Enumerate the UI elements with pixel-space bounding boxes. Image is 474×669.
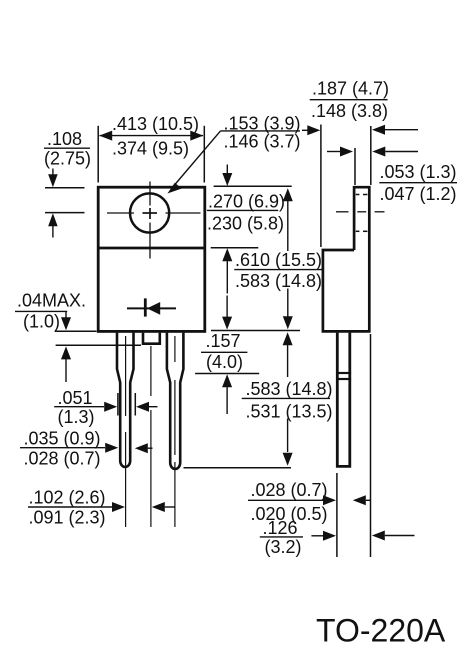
svg-text:(3.2): (3.2) [265,537,302,557]
dim .157 down arrow [222,296,232,330]
dim .108 tick lines [45,188,85,213]
dim .413/.374 extension lines [98,126,204,183]
dim .270 up arrow [222,248,232,293]
dim text .053 (1.3)/.047 (1.2) fraction [379,162,457,204]
svg-text:.583 (14.8): .583 (14.8) [235,271,322,291]
right lead [167,333,184,469]
dim .126 right-pointing arrow [311,531,336,541]
left lead center line [125,336,127,527]
stand-off reference line [56,344,141,346]
mounting hole [130,193,169,232]
dim text .051/(1.3) fraction with left arrow [54,388,117,427]
middle lead center line [150,346,152,527]
dim text .028 (0.7)/.020 (0.5) fraction with arrow [248,480,336,524]
dim .053 right arrow [372,147,418,157]
dim .187 left arrow (points right at side view left ext) [302,125,320,135]
svg-text:.028 (0.7): .028 (0.7) [24,449,101,469]
dim .102 left-pointing arrow [152,502,175,512]
svg-text:.148 (3.8): .148 (3.8) [311,101,388,121]
side view right edge extension line [370,334,372,557]
side view hole center line (dash-dot) [336,211,385,213]
dim .108 up arrow [48,213,58,237]
svg-text:(1.0): (1.0) [23,311,60,331]
body top extension line right [214,185,292,187]
side view lead [337,333,350,467]
dim .053 left arrow [327,147,353,157]
svg-text:(2.75): (2.75) [44,149,91,169]
dim text .157/(4.0) fraction [201,331,247,372]
body bottom extension line left [55,330,97,332]
dim .610 dimension line with arrows [283,188,293,329]
svg-text:.583 (14.8): .583 (14.8) [246,379,333,399]
svg-text:.047 (1.2): .047 (1.2) [380,184,457,204]
svg-text:.04MAX.: .04MAX. [17,291,86,311]
svg-text:.108: .108 [47,129,82,149]
svg-text:.091 (2.3): .091 (2.3) [29,508,106,528]
dim .108 down arrow [48,169,58,188]
dim .051 right arrow [136,402,158,412]
dim .035 right arrow [135,443,153,453]
dim .157 lower reference line [195,373,259,375]
svg-text:.053 (1.3): .053 (1.3) [380,162,457,182]
svg-text:TO-220A: TO-220A [316,613,446,649]
dim .028 right arrow [353,495,371,505]
side view lead taper tick lower [336,378,351,380]
svg-text:.051: .051 [58,388,93,408]
side view hidden hole bottom edge (dashed) [356,230,368,232]
lead tip extension line [184,467,292,469]
side lead left extension line [336,473,338,557]
dim .187 right arrow [372,125,418,135]
dim .583 lower dimension line with arrows [283,332,293,466]
svg-text:.230 (5.8): .230 (5.8) [207,213,284,233]
dim text .108 fraction [44,129,91,169]
dim text .187 (4.7)/.148 (3.8) fraction [310,79,389,121]
dim .187 extension line right [370,126,372,185]
leader line to mounting hole with arrowhead [167,131,220,194]
dim text .102 (2.6)/.091 (2.3) fraction with right arrow [28,487,125,527]
dim text .374 (9.5) [112,139,189,159]
svg-text:.531 (13.5): .531 (13.5) [246,401,333,421]
front view tab/body divider line [97,247,206,250]
svg-text:.413 (10.5): .413 (10.5) [112,114,199,134]
dim text .583 (14.8)/.531 (13.5) fraction [242,379,333,422]
dim text .126/(3.2) fraction [260,518,303,557]
svg-text:.126: .126 [263,518,298,538]
svg-text:(1.3): (1.3) [58,407,95,427]
dim .04 up arrow [61,346,71,382]
body bottom extension line right [211,330,300,332]
dim text .610 (15.5)/.583 (14.8) fraction [234,250,323,291]
svg-text:.374 (9.5): .374 (9.5) [112,139,189,159]
mounting hole vertical center line [149,182,151,259]
side view hidden hole top edge (dashed) [356,194,368,196]
dim text .04MAX./(1.0) fraction [15,291,86,332]
package name TO-220A [316,613,446,649]
svg-text:.102 (2.6): .102 (2.6) [29,487,106,507]
dim .157 up arrow [222,374,232,414]
dim .187 extension line left [320,125,322,248]
dim text .035 (0.9)/.028 (0.7) fraction with left arrow [20,428,118,468]
left lead [117,333,134,467]
dim .04 down arrow [61,311,71,330]
dim .270 down arrow [222,165,232,187]
dim .053 extension line [354,148,356,185]
diode symbol inside body [127,298,176,316]
dim .051 extension ticks [118,393,135,416]
middle lead stub [143,333,160,344]
divider extension line right [211,247,259,249]
dim text .270 (6.9)/.230 (5.8) fraction [207,191,285,233]
side view package profile [323,187,369,331]
svg-text:.028 (0.7): .028 (0.7) [251,480,328,500]
svg-text:.035 (0.9): .035 (0.9) [24,428,101,448]
dim .413/.374 dimension line with arrows [99,131,203,141]
dim text .413 (10.5) [112,114,199,134]
mounting hole horizontal center line [107,212,201,214]
svg-text:.157: .157 [206,331,241,351]
svg-text:(4.0): (4.0) [206,352,243,372]
svg-text:.270 (6.9): .270 (6.9) [208,191,285,211]
svg-text:.146 (3.7): .146 (3.7) [224,132,301,152]
right lead center line [174,336,176,527]
svg-text:.187 (4.7): .187 (4.7) [312,79,389,99]
svg-text:.610 (15.5): .610 (15.5) [235,250,322,270]
side view lead taper tick upper [336,372,351,374]
dim text .153 (3.9)/.146 (3.7) fraction [221,113,301,151]
front view package body outline [98,187,205,331]
dim .126 left-pointing arrow [372,531,415,541]
